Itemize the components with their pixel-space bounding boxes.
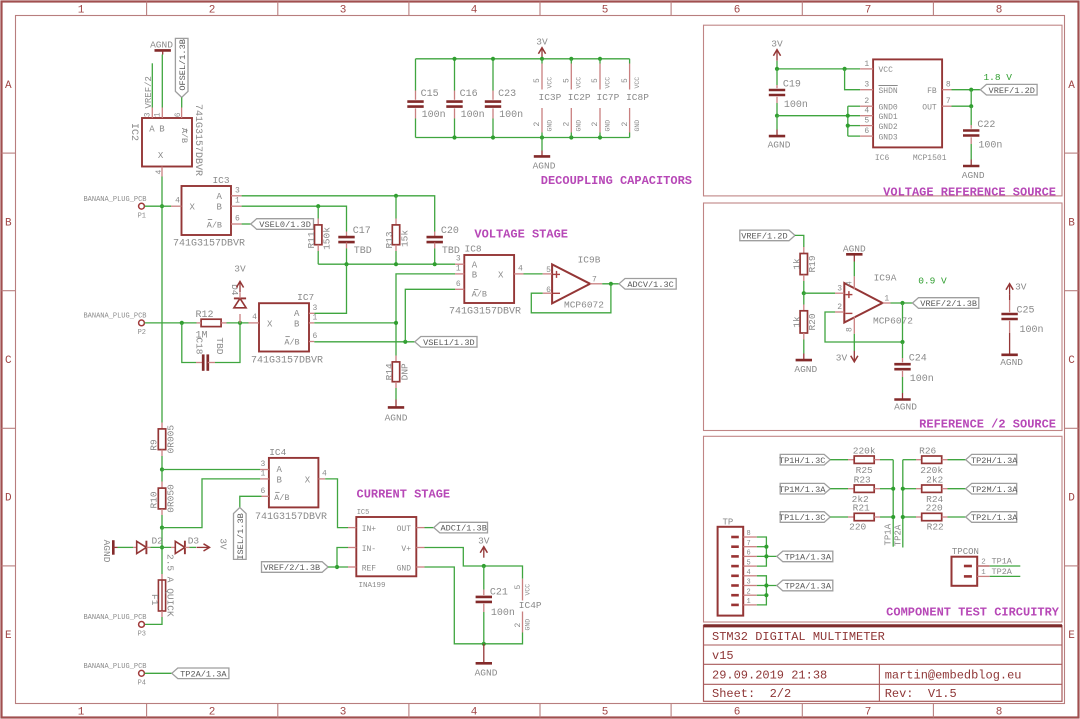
wire IC4 pin4 to IC5 IN+ — [325, 479, 348, 528]
node junction C20 bottom — [433, 262, 437, 266]
svg-text:A/B: A/B — [274, 493, 289, 503]
wire decoupling top rail — [416, 58, 630, 60]
svg-text:R13: R13 — [384, 231, 395, 248]
global label TP2A/1.3A — [777, 580, 833, 591]
connector P4 BANANA_PLUG_PCB — [83, 663, 146, 688]
svg-text:BANANA_PLUG_PCB: BANANA_PLUG_PCB — [83, 196, 146, 204]
svg-text:5: 5 — [602, 707, 609, 719]
node junction feedback/C24 — [900, 340, 904, 344]
svg-text:3V: 3V — [478, 535, 490, 546]
resistor R22 220 — [903, 503, 966, 533]
svg-text:OUT: OUT — [922, 104, 937, 113]
svg-text:SHDN: SHDN — [879, 87, 898, 96]
svg-text:1: 1 — [235, 197, 240, 206]
title text STM32 DIGITAL MULTIMETER — [712, 630, 885, 644]
wire R10 to junction — [161, 515, 163, 528]
svg-text:TP2A/1.3A: TP2A/1.3A — [785, 582, 832, 592]
svg-text:GND: GND — [634, 120, 641, 132]
svg-text:0R050: 0R050 — [165, 484, 176, 513]
svg-text:5: 5 — [864, 117, 869, 126]
wire rail to D2/D3 row — [161, 528, 163, 574]
svg-text:TP2M/1.3A: TP2M/1.3A — [971, 485, 1018, 495]
wire IC3 pin1 to C17 top — [242, 206, 347, 231]
svg-text:100n: 100n — [461, 110, 485, 121]
wire IC5 V+ to 3V rail — [425, 548, 523, 579]
svg-text:VREF/1.2D: VREF/1.2D — [741, 232, 787, 242]
svg-text:IC3: IC3 — [212, 175, 229, 186]
svg-text:AGND: AGND — [533, 160, 556, 171]
svg-text:IC2: IC2 — [128, 123, 139, 141]
power symbol AGND below C22 — [962, 160, 985, 181]
title text sheet — [712, 687, 791, 701]
wire R9 to junction — [161, 456, 163, 470]
svg-text:C23: C23 — [498, 89, 516, 100]
svg-text:X: X — [158, 151, 164, 161]
svg-text:IC8: IC8 — [465, 244, 482, 255]
svg-text:100n: 100n — [491, 608, 515, 619]
svg-text:TP2H/1.3A: TP2H/1.3A — [971, 456, 1018, 466]
svg-text:R9: R9 — [148, 439, 159, 451]
svg-text:150k: 150k — [322, 227, 333, 250]
svg-text:6: 6 — [313, 332, 318, 341]
svg-text:TP1A: TP1A — [884, 523, 894, 545]
wire OUT to junction — [952, 90, 972, 107]
node junction REF — [335, 565, 339, 569]
connector P3 BANANA_PLUG_PCB — [83, 614, 146, 639]
svg-text:P3: P3 — [138, 631, 146, 639]
amplifier IC5 INA199 — [348, 509, 425, 590]
node junction C18 branch — [180, 321, 184, 325]
svg-text:6: 6 — [747, 550, 751, 558]
svg-text:1: 1 — [78, 5, 85, 17]
svg-text:IC7P: IC7P — [597, 92, 620, 103]
svg-text:IC3P: IC3P — [539, 92, 562, 103]
mux IC7 741G3157DBVR — [249, 292, 324, 367]
svg-text:R21: R21 — [853, 503, 870, 514]
svg-text:220: 220 — [849, 521, 866, 532]
svg-text:6: 6 — [734, 707, 741, 719]
svg-text:BANANA_PLUG_PCB: BANANA_PLUG_PCB — [83, 663, 146, 671]
svg-text:C: C — [1068, 355, 1075, 367]
connector TPCON — [952, 547, 990, 586]
capacitor C19 100n — [769, 69, 808, 116]
svg-text:1k: 1k — [792, 316, 803, 328]
node junction R9/R10 IC4 pin3 — [160, 467, 164, 471]
svg-text:15k: 15k — [399, 230, 410, 247]
svg-text:VCC: VCC — [576, 77, 583, 89]
node junction TP pin3 — [764, 583, 768, 587]
wire IC5 OUT to ADCI tag — [425, 527, 434, 529]
capacitor C18 TBD — [182, 323, 240, 371]
node junction TP2A row2 — [901, 487, 905, 491]
wire TP pin2 — [757, 594, 767, 596]
node junction FB/OUT — [969, 88, 973, 92]
svg-text:GND3: GND3 — [879, 133, 898, 142]
wire IC8 pin6 down — [405, 289, 455, 342]
node junction GND1 — [846, 114, 850, 118]
power symbol AGND below C24 — [894, 393, 917, 412]
svg-text:29.09.2019 21:38: 29.09.2019 21:38 — [712, 669, 827, 683]
node junction IC7 pin1 / R14 — [394, 321, 398, 325]
svg-text:V+: V+ — [401, 545, 411, 554]
svg-text:100n: 100n — [910, 374, 934, 385]
section title VOLTAGE REFERENCE SOURCE — [883, 185, 1056, 199]
svg-text:IC9A: IC9A — [874, 273, 897, 284]
svg-text:IC5: IC5 — [357, 509, 370, 517]
power symbol 3V below IC9A — [836, 334, 858, 364]
svg-text:A/B: A/B — [207, 220, 222, 230]
power symbol 3V decoupling rail — [536, 37, 548, 59]
global label ISEL/1.3B — [234, 508, 247, 560]
wire C17 bottom to IC7 pin3 — [314, 264, 346, 313]
wire VREF/2 to IC2 pin3 — [151, 63, 153, 107]
svg-text:TP1A: TP1A — [992, 557, 1013, 567]
svg-text:C18: C18 — [194, 337, 205, 354]
svg-text:6: 6 — [734, 5, 741, 17]
wire TP pin6 to TP1A tag — [757, 555, 777, 557]
svg-text:FB: FB — [927, 87, 937, 96]
svg-text:TP: TP — [723, 518, 734, 528]
svg-text:TP2L/1.3A: TP2L/1.3A — [971, 513, 1018, 523]
global label VSEL0/1.3D — [242, 219, 314, 230]
svg-text:3: 3 — [340, 707, 347, 719]
wire TP1A vertical net — [892, 460, 894, 547]
svg-text:7: 7 — [747, 540, 751, 548]
node junction C21 bottom — [482, 642, 486, 646]
resistor R20 1k — [792, 293, 819, 353]
power pins IC4P — [514, 579, 542, 633]
svg-text:IC8P: IC8P — [626, 92, 649, 103]
svg-text:D: D — [1068, 493, 1075, 505]
power symbol 3V current stage — [478, 535, 490, 557]
svg-text:3V: 3V — [1015, 282, 1027, 293]
svg-text:100n: 100n — [499, 110, 523, 121]
svg-text:1: 1 — [154, 112, 163, 117]
svg-text:4: 4 — [471, 707, 478, 719]
svg-text:1.8 V: 1.8 V — [983, 72, 1012, 83]
svg-text:GND: GND — [576, 120, 583, 132]
svg-text:ADCV/1.3C: ADCV/1.3C — [627, 280, 673, 290]
wire IC9A output — [891, 302, 913, 304]
svg-text:7: 7 — [865, 5, 872, 17]
resistor R19 1k — [792, 247, 819, 293]
svg-text:A: A — [5, 80, 12, 92]
svg-text:1: 1 — [456, 264, 461, 273]
node junction TP1A row2 — [891, 487, 895, 491]
svg-text:AGND: AGND — [794, 364, 817, 375]
svg-text:4: 4 — [322, 470, 327, 479]
svg-text:B: B — [276, 475, 282, 485]
svg-text:A: A — [216, 192, 222, 202]
svg-text:AGND: AGND — [150, 39, 173, 50]
svg-text:3: 3 — [837, 284, 842, 293]
resistor R26 220k — [903, 445, 966, 476]
node junction R13 top — [394, 194, 398, 198]
node junction TP pin2 — [764, 593, 768, 597]
resistor R21 220 — [830, 503, 893, 533]
power pins IC3P — [533, 59, 561, 138]
svg-text:v15: v15 — [712, 649, 734, 663]
wire IC4 pin6 to ISEL tag — [240, 496, 262, 507]
svg-text:AGND: AGND — [101, 540, 112, 563]
svg-text:VREF/2/1.3B: VREF/2/1.3B — [920, 299, 977, 309]
svg-text:C25: C25 — [1017, 306, 1035, 317]
node junction C19 bottom — [775, 114, 779, 118]
svg-text:GND2: GND2 — [879, 123, 898, 132]
svg-text:REF: REF — [362, 564, 377, 573]
node junction D4/C18 right — [238, 321, 242, 325]
svg-text:2: 2 — [591, 122, 600, 127]
section title VOLTAGE STAGE — [474, 228, 568, 242]
wire 3V to IC6 VCC — [777, 61, 860, 69]
svg-text:1: 1 — [313, 313, 318, 322]
node junction R10/IC4 pin1 — [160, 526, 164, 530]
capacitor C20 TBD — [427, 226, 460, 264]
svg-text:AGND: AGND — [1000, 357, 1023, 368]
global label TP2H/1.3A — [966, 454, 1019, 465]
node junction D2/D3 — [160, 545, 164, 549]
wire F1 to P3 — [145, 617, 162, 624]
power symbol AGND above IC2 — [150, 39, 173, 54]
svg-text:5: 5 — [591, 78, 600, 83]
svg-text:5: 5 — [546, 266, 551, 275]
svg-text:2.5 A QUICK: 2.5 A QUICK — [165, 554, 176, 617]
svg-text:R12: R12 — [195, 310, 213, 321]
node junction TP1A row3 — [891, 515, 895, 519]
svg-text:TPCON: TPCON — [952, 547, 979, 557]
svg-text:IN+: IN+ — [362, 525, 377, 534]
svg-text:F1: F1 — [149, 594, 160, 606]
wire TPCON pin2 net TP1A — [990, 557, 1021, 567]
svg-text:100n: 100n — [422, 110, 446, 121]
svg-text:MCP1501: MCP1501 — [913, 154, 947, 163]
resistor R13 15k — [384, 196, 411, 264]
global label VREF/1.2D output — [980, 84, 1037, 95]
wire P1 to IC3 pin4 — [145, 205, 171, 207]
svg-text:VCC: VCC — [546, 77, 553, 89]
capacitor C15 100n — [407, 59, 445, 138]
fuse F1 2.5 A QUICK — [149, 554, 176, 617]
resistor R23 2k2 — [830, 474, 893, 505]
wire IC8 pin4 to IC9B + — [524, 273, 543, 275]
section box REFERENCE /2 SOURCE — [704, 203, 1063, 431]
power symbol 3V right of D3 — [190, 538, 229, 551]
svg-text:3V: 3V — [771, 38, 783, 49]
svg-text:A: A — [1068, 80, 1075, 92]
svg-text:VOLTAGE REFERENCE SOURCE: VOLTAGE REFERENCE SOURCE — [883, 185, 1056, 199]
node junction IC8 pin6 branch — [403, 340, 407, 344]
power pins IC8P — [621, 59, 649, 138]
svg-text:D: D — [5, 493, 12, 505]
svg-text:VREF/1.2D: VREF/1.2D — [989, 86, 1035, 96]
global label TP1L/1.3C — [779, 512, 830, 523]
wire TP pin3 to TP2A tag — [757, 585, 777, 587]
svg-text:C17: C17 — [353, 226, 371, 237]
section box VOLTAGE REFERENCE SOURCE — [704, 25, 1063, 196]
svg-text:3: 3 — [340, 5, 347, 17]
svg-text:AGND: AGND — [475, 667, 498, 678]
power symbol 3V at C25 — [1006, 282, 1027, 295]
svg-text:TBD: TBD — [214, 337, 225, 354]
title text date — [712, 669, 827, 683]
note 1.8 V — [983, 72, 1012, 83]
svg-text:AGND: AGND — [768, 140, 791, 151]
diode D2 — [118, 536, 164, 555]
svg-text:TP2A/1.3A: TP2A/1.3A — [180, 669, 227, 679]
node junctions decoupling rails — [452, 57, 602, 140]
section title REFERENCE /2 SOURCE — [919, 417, 1056, 431]
svg-text:1: 1 — [864, 60, 869, 69]
svg-text:3: 3 — [313, 304, 318, 313]
svg-text:6: 6 — [260, 487, 265, 496]
wire main left rail IC2 pin4 down to R9 — [161, 177, 163, 423]
mux IC2 741G3157DBVR — [128, 104, 203, 177]
svg-text:8: 8 — [946, 81, 951, 90]
svg-text:AGND: AGND — [843, 243, 866, 254]
svg-text:IC2P: IC2P — [568, 92, 591, 103]
node junction IC9A output — [900, 301, 904, 305]
global label TP1H/1.3C — [779, 454, 830, 465]
svg-text:R22: R22 — [927, 521, 944, 532]
svg-text:C15: C15 — [421, 89, 439, 100]
power pins IC2P — [563, 59, 591, 138]
title text rev — [885, 687, 957, 701]
section title CURRENT STAGE — [357, 488, 451, 502]
global label VSEL1/1.3D — [415, 337, 477, 348]
global label TP2L/1.3A — [966, 512, 1019, 523]
svg-text:GND: GND — [397, 564, 412, 573]
svg-text:8: 8 — [747, 530, 751, 538]
svg-text:COMPONENT TEST CIRCUITRY: COMPONENT TEST CIRCUITRY — [886, 606, 1060, 620]
svg-text:5: 5 — [563, 78, 572, 83]
svg-text:INA199: INA199 — [359, 582, 386, 590]
svg-text:5: 5 — [602, 5, 609, 17]
svg-text:4: 4 — [155, 170, 164, 175]
svg-text:VSEL1/1.3D: VSEL1/1.3D — [423, 338, 475, 348]
svg-text:B: B — [216, 203, 222, 213]
svg-text:TP2A: TP2A — [893, 524, 903, 546]
svg-text:AGND: AGND — [385, 412, 408, 423]
svg-text:IC9B: IC9B — [578, 255, 601, 266]
svg-text:3V: 3V — [218, 538, 229, 550]
svg-text:ADCI/1.3B: ADCI/1.3B — [440, 524, 486, 534]
svg-text:VCC: VCC — [525, 584, 532, 596]
svg-text:0.9 V: 0.9 V — [918, 276, 947, 287]
svg-text:C16: C16 — [460, 89, 478, 100]
svg-text:8: 8 — [845, 327, 854, 332]
svg-text:BANANA_PLUG_PCB: BANANA_PLUG_PCB — [83, 614, 146, 622]
node junction GND2 — [846, 124, 850, 128]
svg-text:BANANA_PLUG_PCB: BANANA_PLUG_PCB — [83, 313, 146, 321]
svg-text:A/B: A/B — [179, 128, 189, 143]
svg-text:3: 3 — [864, 81, 869, 90]
wire AGND to IC6 GND pins — [777, 106, 860, 136]
svg-text:A: A — [472, 260, 478, 270]
svg-text:741G3157DBVR: 741G3157DBVR — [251, 356, 323, 367]
svg-text:B: B — [1068, 218, 1075, 230]
power symbol AGND above IC9A — [843, 243, 866, 276]
wire IC9B feedback loop — [531, 284, 611, 313]
svg-text:2: 2 — [621, 122, 630, 127]
svg-text:X: X — [305, 475, 311, 485]
svg-text:GND: GND — [604, 120, 611, 132]
svg-text:C: C — [5, 355, 12, 367]
diode D4 — [229, 284, 246, 323]
svg-text:STM32 DIGITAL MULTIMETER: STM32 DIGITAL MULTIMETER — [712, 630, 885, 644]
node junction R11 top — [316, 204, 320, 208]
svg-text:220k: 220k — [853, 445, 876, 456]
global label ADCI/1.3B — [434, 522, 488, 533]
regulator IC6 MCP1501 — [860, 59, 951, 162]
svg-text:OUT: OUT — [397, 525, 412, 534]
capacitor C17 TBD — [338, 226, 371, 264]
node junction SHDN branch — [843, 67, 847, 71]
svg-text:IN-: IN- — [362, 545, 376, 554]
wire IC5 IN- to REF junction — [337, 548, 348, 568]
svg-text:4: 4 — [864, 107, 869, 116]
wire IC7 pin1 to R14 node — [314, 322, 396, 324]
svg-text:TBD: TBD — [354, 246, 372, 257]
global label VREF/2/1.3B output — [913, 298, 979, 309]
svg-text:741G3157DBVR: 741G3157DBVR — [255, 512, 327, 523]
op-amp IC9A MCP6072 — [835, 273, 913, 334]
power symbol AGND below R20 — [794, 354, 817, 376]
svg-text:3: 3 — [143, 112, 152, 117]
wire P4 to TP2A tag — [145, 672, 172, 674]
svg-text:1: 1 — [260, 470, 265, 479]
power symbol AGND left of D2 — [101, 540, 118, 563]
svg-text:IC7: IC7 — [297, 292, 314, 303]
section title DECOUPLING CAPACITORS — [541, 174, 692, 188]
wire IC9B output to ADCV tag — [602, 283, 619, 285]
svg-text:Rev: V1.5: Rev: V1.5 — [885, 687, 957, 701]
resistor R24 2k2 — [903, 474, 966, 505]
svg-text:8: 8 — [996, 5, 1003, 17]
power symbol 3V above D4 — [234, 264, 246, 293]
svg-text:AGND: AGND — [894, 401, 917, 412]
svg-text:Sheet: 2/2: Sheet: 2/2 — [712, 687, 791, 701]
node junction TP pin6 — [764, 554, 768, 558]
svg-text:R10: R10 — [148, 491, 159, 508]
svg-text:2: 2 — [563, 122, 572, 127]
wire TP2A vertical net — [902, 460, 904, 548]
svg-text:A: A — [294, 309, 300, 319]
svg-text:2: 2 — [981, 559, 986, 567]
svg-text:GND: GND — [546, 120, 553, 132]
svg-text:4: 4 — [518, 264, 523, 273]
svg-text:7: 7 — [946, 97, 951, 106]
svg-text:GND0: GND0 — [879, 104, 898, 113]
global label ADCV/1.3C — [619, 279, 676, 290]
wire junction to IC9A + — [804, 292, 835, 294]
svg-text:DNP: DNP — [399, 363, 410, 380]
svg-text:5: 5 — [747, 559, 751, 567]
svg-text:C19: C19 — [783, 80, 801, 91]
svg-text:DECOUPLING CAPACITORS: DECOUPLING CAPACITORS — [541, 174, 692, 188]
svg-text:6: 6 — [456, 280, 461, 289]
svg-text:R19: R19 — [807, 255, 818, 272]
wire filter bottom rail to IC8 pin3 — [318, 263, 455, 265]
node VREF/2 label — [144, 76, 154, 108]
resistor R12 1M — [195, 310, 226, 341]
svg-text:P2: P2 — [138, 329, 146, 337]
wire OFSEL tag to IC2 pin6 — [181, 97, 183, 107]
svg-text:GND1: GND1 — [879, 113, 898, 122]
power symbol AGND current stage — [475, 644, 498, 679]
global label TP2A/1.3A at P4 — [172, 668, 229, 679]
hierarchical label OFSEL/1.3B — [175, 38, 188, 97]
global label TP2M/1.3A — [966, 483, 1019, 494]
